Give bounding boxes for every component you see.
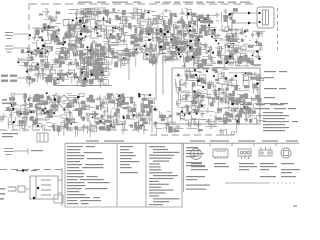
capacitor C98: [193, 30, 197, 36]
wire: [254, 65, 261, 67]
resistor R114: [201, 25, 207, 29]
wire: [106, 25, 116, 27]
transistor Q89: [50, 70, 56, 74]
wire: [181, 8, 183, 13]
resistor R230: [87, 63, 92, 66]
wire: [137, 27, 144, 29]
junction: [198, 39, 200, 41]
wire: [166, 43, 171, 45]
capacitor C7: [48, 17, 54, 21]
wire: [93, 79, 102, 81]
transistor Q100: [122, 59, 125, 65]
wire: [220, 84, 229, 86]
junction: [37, 47, 39, 49]
junction: [189, 40, 192, 43]
junction: [148, 39, 150, 41]
wire: [85, 12, 87, 18]
wire: [76, 59, 78, 69]
junction: [177, 48, 180, 51]
wire: [80, 13, 86, 15]
capacitor C52: [85, 28, 89, 34]
transistor Q8: [54, 36, 58, 41]
value label: [192, 118, 195, 120]
resistor R313: [38, 95, 44, 99]
wire: [208, 96, 210, 105]
capacitor C4: [94, 23, 100, 27]
junction: [97, 32, 99, 34]
junction: [178, 53, 180, 55]
wire: [251, 64, 260, 66]
capacitor C236: [253, 83, 257, 89]
junction: [101, 72, 103, 74]
resistor R93: [189, 46, 193, 51]
transistor Q121: [143, 111, 148, 116]
wire: [115, 18, 127, 20]
transistor Q87: [41, 60, 47, 65]
value label: [103, 51, 105, 53]
wire: [245, 74, 254, 76]
transistor Q90: [104, 51, 109, 57]
wire: [167, 50, 176, 52]
value label: [241, 52, 243, 54]
resistor R80: [212, 30, 216, 36]
wire: [97, 49, 99, 61]
transistor Q17: [91, 52, 95, 58]
wire: [208, 20, 210, 32]
resistor R327: [134, 122, 137, 128]
capacitor C132: [68, 47, 74, 51]
transistor Q88: [98, 59, 105, 63]
wire: [112, 102, 118, 104]
wire: [91, 78, 101, 80]
resistor R241: [188, 57, 192, 61]
wire: [210, 31, 212, 34]
wire: [175, 79, 177, 87]
resistor R291: [64, 124, 69, 128]
wire: [157, 31, 159, 41]
wire: [135, 122, 137, 131]
transistor Q67: [240, 53, 246, 56]
wire: [184, 31, 194, 33]
value label: [106, 37, 109, 39]
resistor R16: [80, 44, 84, 48]
capacitor C114: [170, 52, 174, 58]
junction: [189, 29, 191, 31]
wire: [96, 59, 98, 70]
wire: [215, 115, 217, 124]
value label: [82, 70, 85, 72]
wire: [92, 27, 104, 29]
capacitor C223: [103, 97, 109, 101]
wire: [207, 110, 215, 112]
wire: [35, 72, 46, 74]
transistor Q12: [66, 32, 71, 38]
dashed mid divider right: [150, 134, 236, 136]
wire: [154, 44, 156, 49]
transistor Q74: [73, 52, 77, 56]
resistor R293: [95, 121, 99, 125]
resistor R221: [82, 66, 85, 70]
value label: [200, 71, 202, 73]
wire: [69, 30, 71, 33]
wire: [46, 121, 51, 123]
wire: [110, 115, 120, 117]
transistor Q24: [136, 10, 141, 14]
junction: [89, 50, 91, 52]
wire: [18, 60, 29, 62]
wire: [76, 101, 78, 105]
wire: [162, 33, 164, 44]
value label: [103, 124, 105, 126]
resistor R238: [202, 61, 206, 65]
junction: [47, 25, 49, 27]
resistor R193: [89, 79, 93, 84]
wire: [257, 31, 259, 39]
value label: [237, 41, 240, 43]
resistor R294: [73, 100, 77, 103]
capacitor C129: [27, 69, 33, 73]
capacitor C208: [21, 116, 27, 120]
wire: [193, 119, 205, 121]
wire: [80, 22, 82, 33]
value label: [85, 15, 87, 17]
junction: [181, 111, 183, 113]
value label: [174, 15, 177, 17]
resistor R52: [68, 43, 70, 47]
junction: [81, 38, 83, 40]
wire: [228, 41, 239, 43]
resistor R90: [156, 37, 160, 40]
wire: [224, 45, 226, 54]
junction: [214, 29, 216, 31]
wire: [172, 24, 174, 35]
wire: [36, 111, 38, 118]
value label: [44, 52, 46, 54]
wire: [88, 99, 95, 101]
resistor R355: [214, 92, 217, 97]
transistor Q117: [61, 122, 65, 126]
resistor R373: [236, 114, 242, 117]
wire: [68, 39, 70, 44]
resistor R270: [118, 94, 121, 100]
capacitor C3: [94, 20, 98, 26]
wire: [109, 47, 115, 49]
wire: [221, 24, 223, 30]
wire: [21, 61, 25, 63]
resistor R263: [9, 97, 15, 100]
capacitor C84: [144, 57, 150, 61]
wire: [202, 65, 213, 67]
wire: [131, 114, 142, 116]
wire: [132, 115, 134, 119]
capacitor C162: [98, 53, 104, 57]
wire: [60, 58, 66, 60]
resistor R101: [154, 59, 158, 63]
capacitor C86: [179, 17, 183, 23]
value label: [81, 22, 83, 24]
capacitor C178: [185, 56, 191, 60]
capacitor C226: [135, 113, 139, 119]
wire: [228, 49, 230, 58]
value label: [64, 57, 66, 59]
resistor R312: [100, 115, 103, 118]
resistor R240: [214, 71, 218, 73]
wire: [158, 40, 160, 48]
wire: [234, 100, 239, 102]
value label: [195, 41, 197, 43]
value label: [146, 30, 150, 32]
wire: [194, 58, 196, 65]
capacitor C219: [46, 112, 50, 118]
capacitor C73: [158, 39, 164, 43]
resistor R47: [90, 49, 94, 54]
wire: [117, 100, 119, 103]
wire: [222, 69, 229, 71]
wire: [235, 44, 240, 46]
resistor R8: [105, 10, 109, 16]
wire: [79, 18, 81, 29]
resistor R136: [192, 56, 195, 60]
resistor R126: [152, 60, 156, 65]
capacitor C58: [215, 12, 219, 18]
transistor Q22: [83, 10, 88, 16]
capacitor C101: [217, 47, 223, 51]
wire: [165, 29, 167, 34]
wire: [69, 119, 75, 121]
junction: [91, 74, 93, 76]
capacitor C194: [128, 124, 134, 128]
value label: [90, 30, 93, 32]
junction: [29, 34, 31, 36]
wire: [81, 20, 83, 23]
resistor R3: [50, 19, 56, 22]
wire: [34, 34, 36, 41]
value label: [177, 100, 179, 102]
capacitor C262: [175, 74, 181, 78]
wire: [111, 38, 115, 40]
wire: [151, 22, 162, 24]
value label: [102, 47, 104, 49]
value label: [152, 40, 154, 42]
value label: [69, 62, 71, 64]
resistor R302: [117, 103, 123, 106]
junction: [76, 17, 78, 19]
wire: [151, 51, 153, 58]
resistor R364: [245, 118, 247, 122]
phono eq stage cluster: [17, 47, 111, 87]
capacitor C29: [119, 52, 123, 58]
transistor Q92: [95, 63, 102, 68]
value label: [122, 107, 124, 109]
capacitor C137: [58, 69, 64, 73]
wire: [80, 8, 91, 10]
value label: [55, 50, 59, 52]
junction: [44, 112, 46, 114]
value label: [19, 58, 22, 60]
capacitor C247: [220, 118, 226, 122]
resistor R219: [92, 63, 98, 65]
value label: [10, 109, 14, 111]
resistor R371: [248, 102, 252, 105]
wire: [80, 54, 82, 61]
wire: [215, 112, 222, 114]
value label: [27, 54, 29, 56]
wire: [101, 67, 103, 79]
resistor R132: [189, 46, 192, 49]
resistor R178: [67, 50, 70, 55]
wire: [190, 54, 199, 56]
transistor Q18: [78, 50, 82, 54]
junction: [133, 114, 135, 116]
wire: [15, 124, 25, 126]
resistor R267: [117, 101, 120, 107]
wire: [84, 53, 86, 59]
resistor R11: [75, 23, 81, 25]
wire: [236, 80, 238, 87]
wire: [86, 112, 88, 116]
resistor R15: [139, 30, 143, 35]
wire: [121, 59, 131, 61]
value label: [160, 50, 162, 52]
wire: [85, 51, 90, 53]
resistor R127: [149, 59, 153, 64]
resistor R58: [132, 52, 136, 57]
wire: [147, 106, 157, 108]
resistor R210: [98, 66, 102, 71]
wire: [100, 68, 111, 70]
value label: [33, 37, 36, 39]
resistor R382: [257, 98, 261, 102]
capacitor C133: [79, 53, 83, 59]
wire: [197, 46, 203, 48]
transistor Q137: [214, 90, 219, 95]
resistor R168: [53, 80, 57, 86]
resistor R55: [70, 44, 76, 48]
resistor R388: [215, 117, 221, 120]
value label: [86, 61, 88, 63]
wire: [90, 10, 92, 14]
resistor R317: [123, 107, 129, 109]
value label: [176, 92, 179, 94]
wire: [61, 50, 68, 52]
junction: [155, 29, 157, 31]
capacitor C191: [50, 102, 54, 108]
value label: [142, 44, 146, 46]
wire: [65, 112, 71, 114]
value label: [193, 40, 197, 42]
capacitor C50: [130, 16, 136, 20]
capacitor C188: [130, 96, 134, 102]
capacitor C97: [150, 48, 156, 52]
junction: [26, 71, 28, 73]
capacitor C143: [86, 60, 90, 66]
wire: [208, 97, 217, 99]
transistor Q118: [113, 116, 116, 122]
wire: [189, 68, 191, 78]
wire: [39, 67, 44, 69]
wire: [104, 57, 113, 59]
capacitor C106: [190, 35, 196, 39]
transistor Q61: [159, 39, 162, 42]
junction: [196, 112, 198, 114]
junction: [201, 105, 203, 107]
wire: [192, 26, 194, 30]
transistor Q68: [241, 46, 246, 50]
wire: [256, 45, 262, 47]
resistor R49: [95, 44, 102, 48]
resistor R173: [34, 68, 38, 71]
junction: [218, 61, 220, 63]
resistor R54: [64, 34, 70, 38]
wire: [55, 93, 58, 95]
wire: [185, 14, 193, 16]
wire: [237, 94, 245, 96]
wire: [51, 59, 58, 61]
resistor R130: [231, 53, 234, 59]
transistor Q78: [81, 67, 87, 70]
capacitor C187: [73, 98, 79, 102]
wire: [35, 105, 37, 117]
value label: [145, 122, 149, 124]
transistor Q143: [198, 79, 201, 82]
capacitor C185: [96, 97, 102, 101]
transistor Q51: [174, 29, 177, 35]
wire: [176, 45, 183, 47]
wire: [106, 28, 108, 39]
resistor R204: [44, 64, 49, 68]
wire: [51, 76, 53, 83]
resistor R320: [96, 106, 99, 110]
wire: [25, 116, 27, 125]
resistor R365: [252, 110, 256, 113]
capacitor C48: [79, 9, 83, 15]
wire: [218, 95, 220, 100]
capacitor C76: [189, 47, 195, 51]
resistor R351: [242, 99, 245, 105]
wire: [216, 83, 221, 85]
transistor Q116: [149, 98, 155, 104]
wire: [178, 25, 189, 27]
wire: [68, 29, 75, 31]
arrow junction A: [248, 12, 251, 15]
resistor R337: [142, 98, 148, 101]
transistor Q57: [162, 29, 165, 33]
resistor R251: [246, 58, 250, 62]
resistor R316: [99, 122, 105, 124]
wire: [196, 60, 198, 64]
capacitor C151: [61, 74, 65, 80]
value label: [217, 82, 221, 84]
transistor Q127: [61, 115, 67, 118]
capacitor C63: [173, 25, 179, 29]
wire: [205, 120, 215, 122]
value label: [249, 39, 251, 41]
resistor R281: [87, 98, 91, 102]
wire: [112, 95, 114, 99]
capacitor C193: [85, 113, 91, 117]
capacitor C244: [226, 82, 230, 88]
resistor R233: [129, 52, 132, 58]
transistor Q132: [182, 107, 188, 113]
transistor Q102: [194, 64, 200, 69]
value label: [162, 52, 166, 54]
junction: [197, 80, 200, 83]
junction: [148, 11, 150, 13]
wire: [109, 34, 111, 38]
wire: [89, 19, 91, 27]
junction: [194, 69, 196, 71]
wire: [78, 107, 80, 117]
